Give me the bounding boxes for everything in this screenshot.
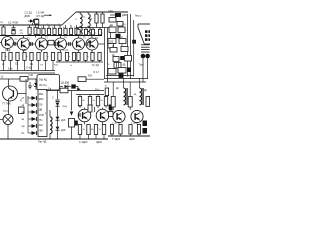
svg-text:420: 420 [88, 75, 93, 78]
svg-text:к: к [88, 56, 89, 58]
svg-text:КВ2: КВ2 [39, 97, 44, 101]
svg-text:Д9В: Д9В [122, 14, 127, 17]
wire double bus 2 [0, 72, 55, 74]
wire base feed [25, 79, 27, 104]
transformer Tr1 res [111, 82, 115, 110]
label row [5, 38, 98, 67]
diode VD8 [56, 117, 66, 127]
jack socket X1 [141, 54, 146, 59]
svg-text:С 4Д: С 4Д [26, 67, 32, 70]
capacitor C56 [121, 45, 128, 52]
capacitor C57 [108, 69, 116, 75]
capacitor C47 [108, 43, 114, 48]
wire vertical rail A [104, 28, 106, 79]
wire vertical rail B [107, 28, 109, 82]
svg-text:С 0,1: С 0,1 [63, 50, 69, 52]
inductor L6 [108, 63, 126, 69]
transformer Tr2 res [128, 82, 132, 110]
svg-text:ЧМ: ЧМ [39, 128, 43, 132]
resistor R13 [84, 28, 89, 36]
label r row2 [83, 129, 101, 131]
plug pin 1 [145, 30, 148, 33]
wire second bus [0, 35, 102, 37]
resistor R47 [94, 125, 97, 140]
label plug [135, 15, 142, 18]
svg-text:к: к [95, 33, 96, 35]
svg-text:Апр у: Апр у [135, 15, 142, 18]
svg-text:4к: 4к [83, 100, 85, 102]
svg-text:Пav 4Д: Пav 4Д [38, 141, 47, 144]
block switch box [37, 75, 60, 91]
resistor R43 [96, 95, 99, 109]
capacitor C61 [52, 91, 60, 102]
wire mid2 [76, 94, 104, 96]
svg-text:ДВ: ДВ [39, 108, 43, 112]
resistor R7 [63, 25, 67, 36]
wire top rail [76, 11, 128, 13]
svg-text:с: с [37, 23, 38, 25]
capacitor C52 [108, 39, 116, 44]
wire bottom bus [0, 138, 108, 140]
svg-text:с: с [69, 23, 70, 25]
resistor R48 [102, 125, 105, 140]
diode VD7 [56, 103, 68, 117]
label bus [2, 63, 34, 70]
wire pot feed [71, 91, 73, 111]
svg-text:R7 4Д: R7 4Д [37, 14, 45, 18]
svg-text:Д18: Д18 [61, 119, 66, 122]
wire vertical rail F [132, 20, 136, 77]
resistor R1b [28, 25, 31, 34]
svg-text:с: с [47, 23, 48, 25]
transistor T10 [96, 108, 109, 125]
wire rail H2 [104, 81, 146, 83]
svg-text:Л 6,3: Л 6,3 [3, 110, 9, 113]
switch contacts [141, 45, 150, 52]
svg-text:Т7 П4Б: Т7 П4Б [2, 101, 11, 105]
diode VD13 [109, 107, 114, 117]
connector plug Sh1 [138, 24, 150, 44]
transformer Tr1 coil [116, 79, 128, 106]
wire jack feed A [142, 62, 144, 82]
plug pin 6 [148, 38, 151, 41]
transistor T1 [2, 36, 14, 51]
connector pin X6 [22, 117, 37, 121]
inductor L1 [76, 12, 83, 36]
resistor R44 [104, 95, 107, 109]
wire vertical rail E [130, 14, 132, 79]
wire pin rail [27, 96, 29, 133]
wire vertical rail C [110, 28, 112, 44]
resistor R46 [87, 125, 90, 140]
connector pin X8 [22, 131, 37, 135]
resistor R33 [125, 56, 132, 62]
transistor T3 [36, 36, 48, 53]
svg-text:4к: 4к [83, 129, 85, 131]
resistor R51 [129, 125, 132, 137]
capacitor C52a [109, 25, 116, 32]
label D1 [15, 11, 33, 41]
transistor T11 [113, 110, 125, 124]
capacitor C65 [78, 113, 80, 117]
resistor R12 [77, 28, 82, 36]
svg-text:4Д: 4Д [123, 65, 126, 67]
svg-text:4Д00: 4Д00 [129, 138, 135, 141]
capacitor C58 [118, 68, 126, 74]
svg-text:к: к [102, 33, 103, 35]
resistor R3 [41, 25, 45, 36]
svg-text:1к: 1к [99, 129, 101, 131]
label bus2 [38, 141, 47, 144]
svg-text:АМ: АМ [39, 123, 43, 127]
resistor R20 [30, 52, 33, 71]
resistor R9 [74, 25, 78, 36]
wire top bus [0, 24, 62, 26]
jack socket X2 [145, 54, 150, 59]
wire mid right bus [106, 75, 134, 77]
resistor R23 [51, 52, 54, 71]
resistor R18 [16, 52, 19, 71]
diode VD6 [34, 79, 38, 90]
svg-text:C49: C49 [29, 74, 34, 77]
transformer Tr1 res2 [105, 86, 109, 96]
svg-text:к: к [6, 56, 7, 58]
svg-text:R: R [91, 18, 93, 21]
svg-text:к: к [48, 56, 49, 58]
arrow pot [70, 112, 74, 116]
svg-text:СВ: СВ [39, 102, 43, 106]
resistor R14 [91, 28, 96, 36]
svg-text:Д2 Д9В: Д2 Д9В [61, 81, 70, 84]
resistor R15 [98, 28, 103, 36]
label T11 [112, 123, 136, 125]
resistor R8 [69, 23, 72, 35]
diode VD1 [28, 19, 39, 25]
resistor R21 [37, 52, 40, 71]
svg-text:ум: ум [22, 125, 25, 128]
resistor R32 [112, 55, 119, 62]
label below right [112, 138, 135, 141]
plug pin 2 [148, 30, 151, 33]
label Tr [92, 64, 99, 67]
label below [79, 141, 102, 144]
svg-text:к: к [27, 56, 28, 58]
svg-text:с: с [58, 23, 59, 25]
capacitor C60 [29, 74, 34, 77]
plug pin 4 [148, 34, 151, 37]
label R1 [1, 22, 5, 24]
contact blob 2 [143, 128, 148, 134]
transformer Tr2 res2 [134, 94, 150, 107]
capacitor C51 [110, 22, 127, 28]
plug pin 3 [145, 34, 148, 37]
label R40 [94, 71, 100, 74]
resistor R49 [110, 125, 113, 137]
diode VD2 [110, 13, 127, 17]
resistor R39 [78, 75, 104, 91]
svg-text:Д9В: Д9В [25, 14, 30, 18]
diode VD12 [109, 105, 112, 110]
connector pin X7 [22, 124, 37, 128]
svg-text:3В: 3В [74, 86, 77, 88]
diode VD9 [56, 127, 66, 139]
connector pin X3 [22, 96, 37, 100]
resistor R52 [137, 125, 140, 137]
resistor R30 [98, 52, 101, 62]
svg-text:Тр 4Д: Тр 4Д [92, 64, 99, 67]
svg-text:КВ1: КВ1 [39, 92, 44, 96]
lamp HL1 [0, 110, 13, 139]
capacitor C6 [69, 42, 71, 46]
wire rail H1 [104, 78, 148, 80]
resistor R28 [84, 52, 89, 62]
svg-text:С49: С49 [108, 9, 113, 13]
wire vertical rail D [127, 14, 129, 77]
resistor R17 [9, 52, 12, 71]
label r row [83, 100, 103, 102]
svg-text:кТ: кТ [22, 96, 25, 100]
wire jack down A [139, 58, 148, 66]
label C49 [108, 9, 115, 23]
capacitor C59 [119, 73, 124, 78]
wire mid bus right [76, 27, 113, 29]
svg-text:4Д: 4Д [95, 38, 98, 40]
wire feed [0, 75, 44, 79]
block band box [38, 90, 47, 137]
capacitor C7 [86, 41, 91, 46]
resistor R41 [78, 95, 81, 109]
capacitor C3 [14, 42, 16, 46]
capacitor C52b [118, 27, 127, 33]
connector pin X5 [22, 110, 37, 114]
transistor T2 [18, 36, 30, 53]
resistor R27 [77, 52, 80, 62]
resistor R24 [58, 52, 61, 62]
resistor R1 [2, 25, 5, 35]
resistor R1c [34, 25, 37, 37]
diode VD4 [120, 56, 124, 60]
capacitor C50 [109, 18, 116, 23]
connector pin X4 [22, 103, 37, 107]
resistor R10 [91, 12, 99, 28]
wire bottom bus right [108, 135, 150, 137]
resistor R2 [37, 23, 40, 35]
svg-text:R4,7: R4,7 [95, 89, 100, 91]
svg-text:C2 Д1: C2 Д1 [25, 11, 33, 15]
svg-text:С 4Д00: С 4Д00 [79, 141, 88, 144]
svg-text:R4Д: R4Д [63, 106, 68, 108]
contact blob 1 [143, 121, 148, 127]
svg-text:C1 4700: C1 4700 [8, 21, 19, 25]
resistor R36 [19, 101, 25, 114]
svg-text:Тлф: Тлф [139, 64, 144, 67]
transistor T9 [78, 105, 91, 125]
svg-text:ПЧ: ПЧ [39, 118, 43, 122]
inductor L2 [83, 12, 90, 36]
capacitor C53 [119, 36, 128, 44]
svg-text:36 кГц: 36 кГц [39, 83, 47, 87]
transistor T5 [73, 36, 85, 53]
wire jack feed B [147, 62, 149, 79]
svg-text:R 4Д: R 4Д [5, 50, 11, 52]
svg-text:Т 4Д00: Т 4Д00 [112, 138, 121, 141]
diode VD10 [60, 81, 71, 88]
plug pin 5 [145, 38, 148, 41]
wire riser to top rail [62, 12, 76, 25]
wire mid horiz [46, 90, 104, 92]
inductor L3 [45, 110, 52, 139]
resistor R5 [52, 25, 56, 36]
svg-text:к: к [81, 33, 82, 35]
resistor R6 [58, 23, 61, 35]
capacitor C1 [8, 21, 19, 34]
transistor T12 [131, 110, 143, 124]
capacitor C4 [31, 42, 33, 46]
capacitor C55 [110, 46, 117, 52]
svg-text:1к: 1к [93, 100, 95, 102]
capacitor C5 [48, 40, 57, 46]
svg-text:1к: 1к [70, 65, 72, 67]
resistor R37 [48, 87, 68, 92]
svg-text:5к: 5к [101, 100, 103, 102]
ground sym [28, 82, 35, 89]
wire T6 out [98, 43, 105, 45]
wire double bus 1 [0, 70, 55, 72]
transistor T6 [86, 36, 98, 53]
wire base row [0, 43, 86, 45]
potentiometer R38 [69, 119, 78, 140]
label T1 [10, 38, 86, 41]
transformer Tr2 coil [140, 79, 148, 106]
svg-text:Д18: Д18 [61, 129, 66, 132]
svg-text:С52: С52 [109, 42, 114, 44]
svg-text:к: к [69, 56, 70, 58]
svg-text:L5 ЧМ: L5 ЧМ [37, 11, 46, 15]
resistor R16 [2, 52, 7, 71]
resistor R19 [23, 52, 28, 71]
svg-text:4Д00: 4Д00 [96, 141, 102, 144]
transistor T4 [55, 36, 67, 53]
capacitor C62 [88, 105, 95, 112]
svg-text:к: к [126, 30, 127, 32]
resistor R11 [101, 12, 104, 28]
transistor T7 [3, 79, 27, 115]
resistor R4 [47, 23, 50, 35]
label T7 [2, 101, 11, 105]
diode VD5 [127, 68, 131, 73]
resistor R22 [44, 52, 49, 71]
diode VD3 [116, 34, 124, 39]
wire lower mid [56, 61, 103, 63]
resistor R45 [78, 125, 81, 140]
arrow feed [74, 86, 81, 91]
label L5 [37, 11, 53, 19]
svg-text:R 4,7: R 4,7 [94, 71, 100, 74]
resistor R25 [65, 52, 70, 62]
svg-text:УКВ: УКВ [39, 113, 44, 117]
resistor R26 [72, 52, 75, 62]
resistor R42 [88, 95, 91, 109]
resistor R35 [20, 77, 28, 82]
diode VD11 [71, 84, 78, 90]
svg-text:Пф 4Д: Пф 4Д [39, 78, 47, 82]
svg-text:к: к [88, 33, 89, 35]
resistor R29 [91, 52, 94, 62]
resistor R50 [119, 125, 122, 137]
